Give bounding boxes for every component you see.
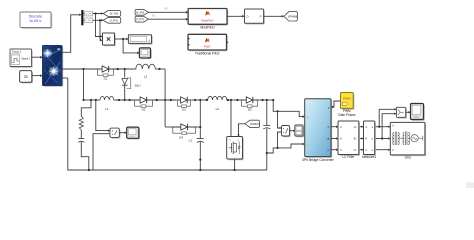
svg-text:Measure1: Measure1 bbox=[362, 155, 376, 159]
svg-text:D3: D3 bbox=[182, 107, 186, 111]
svg-text:[I_PV]: [I_PV] bbox=[136, 17, 144, 21]
svg-text:V1: V1 bbox=[164, 7, 168, 11]
svg-text:C: C bbox=[392, 149, 394, 152]
svg-text:<I_PV>: <I_PV> bbox=[85, 19, 93, 22]
svg-text:C1: C1 bbox=[189, 139, 193, 143]
svg-text:[PWM]: [PWM] bbox=[250, 122, 259, 126]
svg-text:L1: L1 bbox=[105, 107, 109, 111]
svg-text:3Ph Bridge Converter: 3Ph Bridge Converter bbox=[302, 158, 335, 162]
svg-text:+: + bbox=[307, 115, 309, 119]
svg-text:Gate Pulses: Gate Pulses bbox=[338, 113, 356, 117]
svg-text:C: C bbox=[366, 149, 368, 152]
svg-text:ModP&O: ModP&O bbox=[200, 25, 214, 29]
svg-text:D1: D1 bbox=[104, 76, 108, 80]
svg-text:B: B bbox=[328, 137, 330, 141]
svg-text:LC Filter: LC Filter bbox=[342, 155, 355, 159]
svg-text:Discrete: Discrete bbox=[29, 14, 42, 18]
svg-text:ModP&O: ModP&O bbox=[201, 18, 214, 22]
svg-text:L3: L3 bbox=[216, 107, 220, 111]
svg-text:P&O: P&O bbox=[204, 45, 211, 49]
svg-text:D5: D5 bbox=[248, 107, 252, 111]
svg-text:Group 1: Group 1 bbox=[12, 50, 22, 54]
svg-text:Signal 1: Signal 1 bbox=[21, 57, 31, 60]
svg-text:g: g bbox=[238, 140, 239, 142]
svg-text:D2: D2 bbox=[142, 107, 146, 111]
svg-text:P: P bbox=[260, 14, 262, 18]
svg-text:C: C bbox=[327, 148, 329, 152]
svg-text:C: C bbox=[340, 149, 342, 152]
svg-text:-: - bbox=[307, 142, 308, 146]
svg-text:<V_PV>: <V_PV> bbox=[85, 12, 93, 15]
svg-text:L2: L2 bbox=[144, 75, 148, 79]
svg-text:1e-05 s.: 1e-05 s. bbox=[29, 19, 42, 23]
svg-text:[PWM]: [PWM] bbox=[289, 14, 298, 18]
svg-text:[V_PV]: [V_PV] bbox=[136, 10, 145, 14]
svg-text:25: 25 bbox=[24, 75, 28, 79]
svg-text:Grid: Grid bbox=[405, 156, 411, 160]
svg-text:D: D bbox=[247, 14, 249, 18]
svg-text:[I_PV]: [I_PV] bbox=[110, 18, 118, 22]
svg-text:D4: D4 bbox=[179, 136, 183, 140]
svg-text:V1: V1 bbox=[152, 13, 156, 17]
svg-text:D1U: D1U bbox=[135, 84, 141, 88]
svg-text:[V_PV]: [V_PV] bbox=[110, 12, 119, 16]
svg-text:Traditional P&O: Traditional P&O bbox=[195, 52, 220, 56]
svg-text:A: A bbox=[328, 125, 330, 129]
svg-text:PWM: PWM bbox=[343, 97, 351, 101]
